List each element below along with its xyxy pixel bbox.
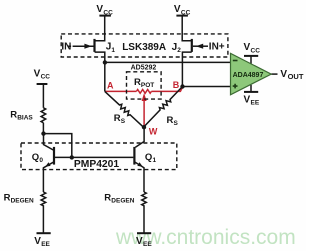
svg-text:R: R — [4, 192, 11, 203]
wiper arrowhead — [142, 93, 147, 101]
node dot Rbias — [41, 131, 45, 135]
wire red wiper — [143, 101, 145, 127]
svg-text:EE: EE — [41, 241, 50, 248]
svg-text:V: V — [244, 94, 251, 105]
wire J1 source to node — [95, 52, 105, 62]
svg-text:R: R — [104, 192, 111, 203]
svg-text:V: V — [174, 4, 181, 15]
svg-text:DEGEN: DEGEN — [11, 197, 34, 204]
svg-text:PMP4201: PMP4201 — [74, 159, 119, 170]
resistor RDEGEN left — [41, 192, 46, 206]
wire J1 gate — [68, 45, 94, 47]
svg-text:LSK389A: LSK389A — [122, 42, 166, 53]
resistor RS left — [103, 90, 145, 129]
Vcc power bar above J1 — [99, 15, 111, 17]
svg-text:S: S — [121, 118, 126, 125]
svg-text:0: 0 — [39, 157, 43, 164]
svg-text:V: V — [136, 236, 143, 247]
svg-text:V: V — [280, 69, 287, 80]
svg-text:CC: CC — [103, 9, 113, 16]
svg-text:POT: POT — [141, 82, 154, 89]
svg-text:R: R — [114, 113, 121, 124]
resistor RPOT red zigzag — [136, 90, 151, 94]
wire to Vee left — [42, 205, 44, 233]
dashed box LSK389A — [61, 34, 228, 57]
wire Vcc to J2 drain — [182, 16, 192, 41]
svg-text:R: R — [167, 115, 174, 126]
wire node to A — [104, 62, 106, 91]
svg-text:ADA4897: ADA4897 — [233, 72, 264, 79]
svg-text:Q: Q — [145, 152, 152, 163]
wire mirror node to base rail — [44, 134, 72, 158]
Vcc power bar above J2 — [176, 15, 188, 17]
dashed box AD5292 — [127, 72, 162, 99]
op-amp U1 ADA4897 — [231, 53, 272, 94]
Vee power bar op-amp — [244, 91, 258, 93]
svg-text:R: R — [10, 110, 17, 121]
svg-text:EE: EE — [251, 100, 260, 107]
resistor RS right — [142, 85, 184, 129]
svg-text:BIAS: BIAS — [17, 115, 33, 122]
resistor RDEGEN right — [142, 192, 147, 206]
svg-text:1: 1 — [153, 157, 157, 164]
svg-text:CC: CC — [181, 9, 191, 16]
Vcc power bar op-amp — [244, 55, 258, 57]
svg-text:V: V — [96, 4, 103, 15]
wire op-amp to Vee — [250, 85, 252, 92]
wire Q0 collector — [44, 134, 54, 150]
svg-text:OUT: OUT — [288, 72, 304, 81]
svg-text:2: 2 — [177, 47, 181, 54]
svg-text:AD5292: AD5292 — [131, 65, 157, 72]
wire Rbias to mirror node — [42, 123, 44, 134]
gate arrowhead IN- — [84, 44, 91, 49]
svg-text:Q: Q — [32, 152, 39, 163]
wire Vcc to Rbias — [42, 84, 44, 108]
wire J2 gate — [193, 45, 208, 47]
Vee power bar left — [37, 232, 51, 234]
Vcc power bar left — [37, 83, 48, 85]
op-amp minus marker — [233, 60, 238, 62]
svg-text:A: A — [107, 81, 114, 91]
Vee power bar right — [137, 232, 151, 234]
node dot J1 source — [103, 60, 107, 64]
svg-text:CC: CC — [251, 47, 261, 54]
transistor J2 channel bar — [191, 39, 193, 52]
node dot W — [142, 125, 146, 129]
svg-text:1: 1 — [111, 47, 115, 54]
svg-text:EE: EE — [143, 241, 152, 248]
wire noninverting input from B — [183, 86, 231, 88]
svg-text:V: V — [34, 236, 41, 247]
wire Q1 emitter — [134, 162, 144, 192]
wire Vcc to J1 drain — [95, 16, 105, 41]
Q1 emitter arrowhead — [137, 162, 143, 167]
transistor J1 channel bar — [93, 39, 95, 52]
wire output — [271, 73, 277, 75]
wire Q0 emitter — [43, 162, 54, 192]
svg-text:IN+: IN+ — [209, 41, 225, 52]
node dot base rail — [70, 155, 74, 159]
wire to Vee right — [143, 205, 145, 233]
Q0 emitter arrowhead — [45, 162, 50, 167]
wire red A to B — [105, 88, 182, 92]
svg-text:S: S — [174, 120, 179, 127]
wire W to Q1 collector — [135, 127, 144, 147]
svg-text:B: B — [173, 80, 180, 90]
gate arrowhead IN+ — [196, 44, 203, 49]
resistor RBIAS — [41, 108, 46, 123]
svg-text:W: W — [149, 126, 158, 136]
wire Vcc to op-amp — [250, 57, 252, 64]
wire base rail Q0-Q1 — [55, 156, 133, 158]
op-amp plus marker — [233, 84, 238, 89]
svg-text:V: V — [34, 68, 41, 79]
wire inverting input — [105, 61, 231, 63]
svg-text:V: V — [244, 42, 251, 53]
svg-text:IN: IN — [61, 41, 71, 52]
svg-text:CC: CC — [41, 74, 51, 81]
wire J2 source to node B — [182, 52, 191, 86]
dashed box PMP4201 — [21, 143, 177, 170]
svg-text:DEGEN: DEGEN — [111, 197, 134, 204]
node dot B — [180, 84, 184, 88]
transistor Q1 bar — [133, 147, 135, 165]
transistor Q0 bar — [53, 147, 55, 165]
